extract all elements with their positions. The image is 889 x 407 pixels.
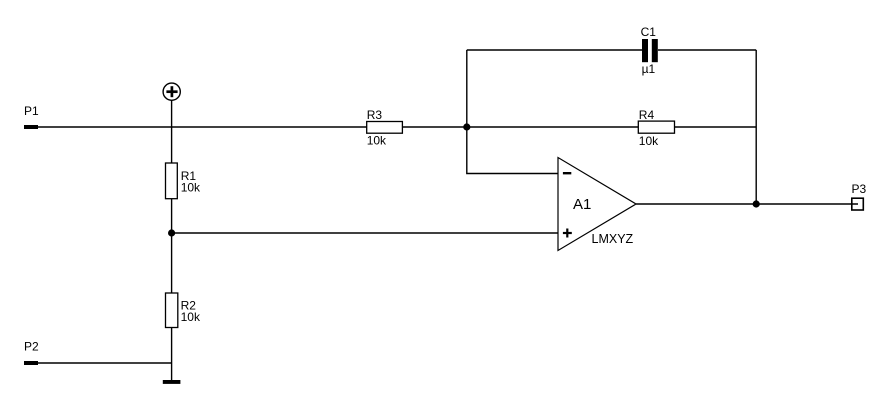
- capacitor C1: [641, 25, 658, 76]
- svg-text:µ1: µ1: [642, 62, 656, 76]
- node junction at R1/R2 (to + input): [168, 229, 175, 236]
- node junction at R3 output: [463, 123, 470, 130]
- svg-text:10k: 10k: [181, 180, 201, 194]
- svg-text:C1: C1: [641, 25, 657, 39]
- wire P2 to left rail: [38, 362, 172, 364]
- svg-text:A1: A1: [573, 196, 591, 213]
- svg-text:P3: P3: [852, 182, 867, 196]
- svg-text:R4: R4: [639, 108, 655, 122]
- wire op-amp output: [636, 203, 858, 205]
- resistor R1: [166, 163, 202, 199]
- resistor R3: [367, 108, 403, 148]
- terminal P3: [852, 182, 867, 210]
- wire P1 main horizontal net: [38, 126, 756, 128]
- svg-text:10k: 10k: [367, 134, 387, 148]
- wire to op-amp + input: [172, 232, 558, 234]
- resistor R4: [638, 108, 674, 148]
- svg-text:P1: P1: [24, 104, 39, 118]
- svg-text:LMXYZ: LMXYZ: [592, 232, 634, 246]
- op-amp A1: [558, 158, 636, 251]
- wire feedback left vertical + to - input: [467, 50, 558, 174]
- svg-text:10k: 10k: [639, 134, 659, 148]
- wire right feedback vertical: [755, 50, 757, 204]
- wire top feedback (to C1): [467, 49, 756, 51]
- power symbol + (supply flag): [163, 83, 180, 100]
- svg-text:10k: 10k: [181, 310, 201, 324]
- svg-text:R3: R3: [367, 108, 383, 122]
- resistor R2: [166, 293, 201, 328]
- terminal P1: [24, 104, 39, 129]
- svg-text:P2: P2: [24, 340, 39, 354]
- ground: [163, 380, 181, 384]
- node junction at output: [753, 200, 760, 207]
- wire vertical left rail (supply to ground): [171, 100, 173, 381]
- terminal P2: [24, 340, 39, 366]
